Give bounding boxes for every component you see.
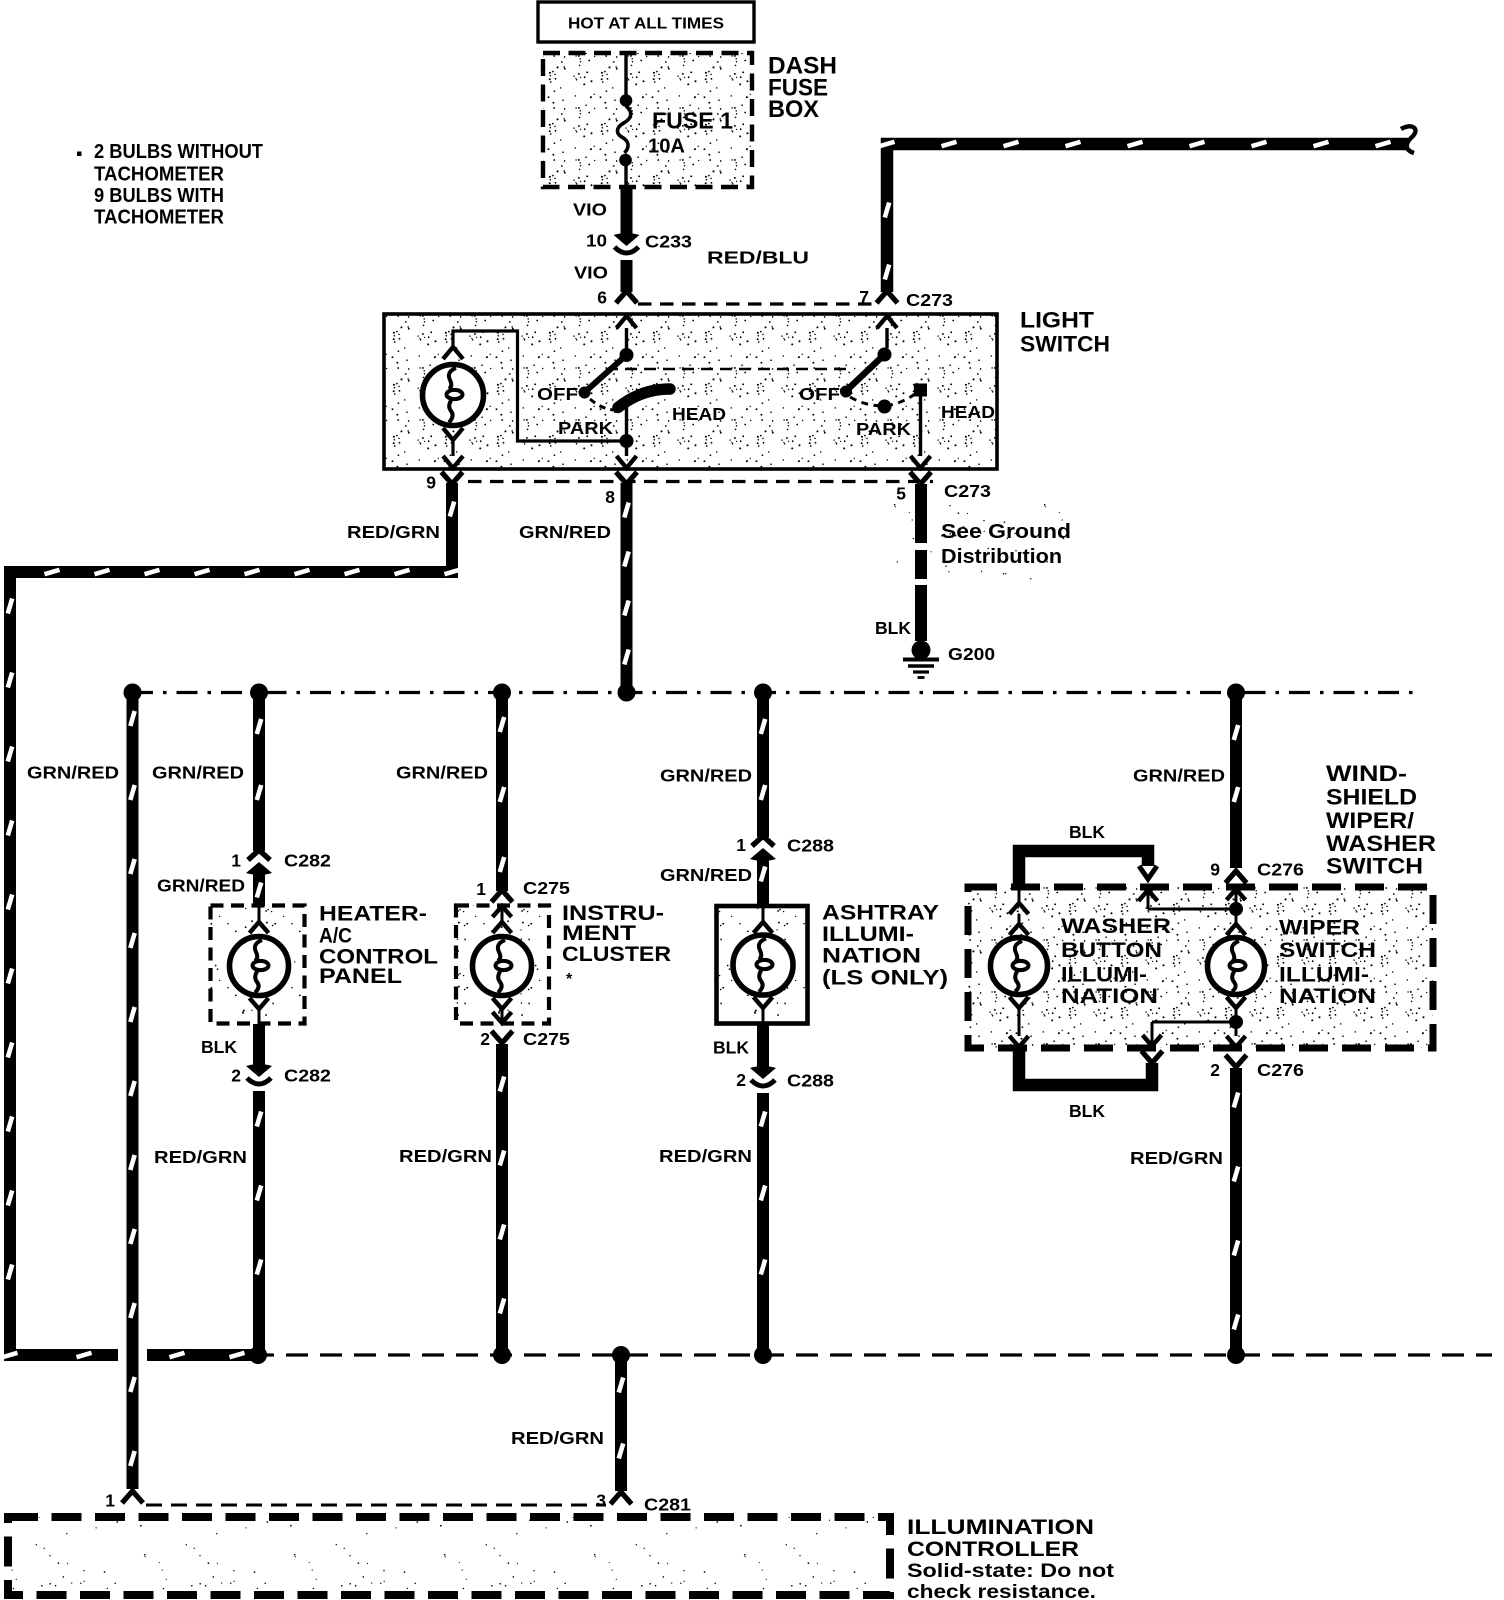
label ILLUMINATION CONTROLLER bbox=[907, 1516, 1115, 1600]
label RED/BLU bbox=[707, 248, 809, 268]
label INSTRUMENT CLUSTER bbox=[562, 902, 671, 988]
label ASHTRAY ILLUMINATION (LS ONLY) bbox=[822, 902, 948, 990]
wiper bulb exit bbox=[1227, 1022, 1246, 1047]
svg-text:C273: C273 bbox=[944, 481, 991, 501]
svg-text:G200: G200 bbox=[948, 644, 995, 664]
wire RED/BLU: pin 7 up / across to right edge bbox=[880, 142, 1409, 292]
label LIGHT SWITCH bbox=[1020, 308, 1110, 357]
wire GRN/RED: bus to C276 pin 9 bbox=[1234, 693, 1238, 869]
pin 8 flare bbox=[616, 472, 637, 484]
svg-text:SWITCH: SWITCH bbox=[1020, 332, 1110, 357]
connector C288 pin 2 (arrow/socket) bbox=[750, 1066, 776, 1086]
svg-text:C273: C273 bbox=[906, 290, 953, 310]
C275 pin 2 flare bbox=[492, 1031, 513, 1043]
connector C233 (male arrow / female socket) bbox=[614, 233, 640, 253]
label DASH FUSE BOX bbox=[768, 53, 837, 124]
label C273 (bottom) bbox=[944, 481, 991, 501]
svg-text:5: 5 bbox=[896, 484, 906, 504]
label GRN/RED (pin 8) bbox=[519, 522, 611, 542]
wire VIO: C233 to light switch pin 6 bbox=[621, 260, 633, 292]
lower bus junction dot J bbox=[754, 1346, 772, 1364]
svg-text:BLK: BLK bbox=[1069, 1101, 1105, 1121]
svg-text:9: 9 bbox=[426, 473, 436, 493]
svg-text:GRN/RED: GRN/RED bbox=[660, 865, 752, 885]
svg-text:PARK: PARK bbox=[558, 418, 613, 438]
right switch: feed line from pin 7 bbox=[877, 316, 897, 348]
label pin 8 bbox=[605, 487, 615, 507]
svg-text:2: 2 bbox=[1210, 1060, 1220, 1080]
upper bus junction dot D bbox=[618, 684, 636, 702]
stipple around See Ground bbox=[885, 502, 1070, 582]
svg-text:C233: C233 bbox=[645, 232, 692, 252]
label pin 5 bbox=[896, 484, 906, 504]
label GRN/RED (left edge wire) bbox=[27, 763, 119, 783]
svg-text:C281: C281 bbox=[644, 1495, 691, 1515]
svg-text:NATION: NATION bbox=[1279, 985, 1376, 1008]
label HEATER-A/C CONTROL PANEL bbox=[319, 903, 438, 989]
svg-text:BLK: BLK bbox=[201, 1037, 237, 1057]
label pin 2 C275 bbox=[480, 1029, 490, 1049]
svg-text:1: 1 bbox=[231, 851, 241, 871]
fuse F1 terminal dot top bbox=[620, 94, 633, 107]
svg-text:A/C: A/C bbox=[319, 925, 352, 948]
left switch blade to OFF bbox=[586, 355, 627, 391]
svg-text:1: 1 bbox=[736, 835, 746, 855]
svg-text:RED/BLU: RED/BLU bbox=[707, 248, 809, 268]
label See Ground Distribution bbox=[941, 521, 1071, 568]
svg-text:2: 2 bbox=[736, 1070, 746, 1090]
wiper switch bulb column entry bbox=[1227, 889, 1246, 909]
wire RED/GRN: C275 pin 2 to lower bus bbox=[500, 1044, 504, 1355]
lower bus dashed line bbox=[252, 1353, 1492, 1356]
label pin 9 C276 bbox=[1210, 860, 1220, 880]
washer bulb column bbox=[991, 887, 1048, 1047]
right switch pivot dot bbox=[878, 348, 892, 362]
lower bus junction dot K bbox=[1227, 1346, 1245, 1364]
svg-text:HEATER-: HEATER- bbox=[319, 903, 427, 926]
label BLK (heater) bbox=[201, 1037, 237, 1057]
wire GRN/RED: C282 to heater box bbox=[257, 872, 261, 906]
svg-text:SWITCH: SWITCH bbox=[1279, 939, 1376, 962]
left switch OFF contact dot bbox=[579, 387, 591, 399]
wire: fuse feed (inside fuse box) bbox=[624, 55, 627, 96]
C276 pin 2 flare bbox=[1226, 1055, 1247, 1067]
left switch lever (thick swoosh to HEAD) bbox=[618, 389, 670, 408]
BLK top jumper arrow into box bbox=[1139, 866, 1157, 879]
svg-text:GRN/RED: GRN/RED bbox=[519, 522, 611, 542]
wire GRN/RED: bus to illumination controller pin 1 bbox=[130, 693, 134, 1490]
svg-text:2 BULBS WITHOUT: 2 BULBS WITHOUT bbox=[94, 141, 263, 163]
svg-text:WIPER: WIPER bbox=[1279, 917, 1360, 940]
light switch box (stippled) bbox=[384, 314, 997, 469]
label VIO (lower) bbox=[574, 263, 608, 283]
svg-text:VIO: VIO bbox=[573, 200, 607, 220]
label RED/GRN (instrument) bbox=[399, 1146, 492, 1166]
wire BLK: bottom jumper wiper-washer bbox=[1019, 1048, 1152, 1085]
wire GRN/RED: pin 8 to upper bus bbox=[624, 483, 628, 693]
svg-text:GRN/RED: GRN/RED bbox=[152, 763, 244, 783]
svg-text:BOX: BOX bbox=[768, 96, 819, 123]
lower bus junction dot H bbox=[493, 1346, 511, 1364]
right switch OFF contact dot bbox=[840, 386, 852, 398]
svg-text:WASHER: WASHER bbox=[1326, 831, 1436, 856]
illumination controller pin 1 flare bbox=[122, 1491, 143, 1503]
left switch exit chevron bbox=[617, 441, 637, 468]
wire RED/GRN: lower bus to C281 pin 3 bbox=[619, 1355, 623, 1491]
dash fuse box (dashed, stippled) bbox=[543, 53, 752, 187]
svg-text:GRN/RED: GRN/RED bbox=[27, 763, 119, 783]
svg-text:C275: C275 bbox=[523, 878, 570, 898]
wire BLK: top jumper washer-wiper bbox=[1019, 851, 1148, 887]
fuse F1 terminal dot bottom bbox=[619, 154, 632, 167]
label pin 6 bbox=[597, 288, 607, 308]
label pin 1 C288 bbox=[736, 835, 746, 855]
svg-text:PANEL: PANEL bbox=[319, 965, 402, 988]
light switch internal wire: bulb to park tap bbox=[453, 331, 620, 441]
svg-text:CONTROLLER: CONTROLLER bbox=[907, 1538, 1079, 1561]
svg-text:C275: C275 bbox=[523, 1029, 570, 1049]
windshield wiper/washer switch box (dashed, stippled) bbox=[968, 887, 1433, 1048]
label WASHER BUTTON ILLUMI- NATION bbox=[1061, 915, 1171, 1008]
instrument bulb bbox=[473, 906, 532, 1023]
label VIO (upper) bbox=[573, 200, 607, 220]
svg-text:2: 2 bbox=[480, 1029, 490, 1049]
wire GRN/RED: left edge down to lower bus bbox=[3, 566, 253, 1357]
svg-text:GRN/RED: GRN/RED bbox=[660, 766, 752, 786]
svg-text:WIPER/: WIPER/ bbox=[1326, 808, 1414, 833]
label BLK (bottom) bbox=[1069, 1101, 1105, 1121]
wire GRN/RED: bus to C275 pin 1 bbox=[500, 693, 504, 892]
wiper junction dot (top) bbox=[1229, 902, 1243, 916]
svg-text:GRN/RED: GRN/RED bbox=[396, 763, 488, 783]
C276 pin 9 flare bbox=[1226, 871, 1247, 883]
label HEAD (right) bbox=[941, 402, 995, 422]
wire GRN/RED: bus to C288 pin 1 bbox=[761, 693, 765, 838]
svg-text:10A: 10A bbox=[648, 136, 685, 158]
internal link top bbox=[1139, 890, 1230, 909]
svg-text:ASHTRAY: ASHTRAY bbox=[822, 902, 939, 925]
svg-text:*: * bbox=[566, 971, 573, 988]
svg-text:GRN/RED: GRN/RED bbox=[157, 876, 245, 896]
svg-text:FUSE 1: FUSE 1 bbox=[652, 108, 733, 134]
note: bulb count legend bbox=[77, 141, 263, 229]
C275 pin 1 flare bbox=[492, 890, 513, 902]
svg-text:PARK: PARK bbox=[856, 419, 911, 439]
mechanical link dashed line bbox=[606, 368, 852, 371]
svg-text:MENT: MENT bbox=[562, 922, 636, 945]
left switch line to pin 8 bbox=[625, 407, 628, 441]
label 10 bbox=[586, 231, 607, 251]
label C281 bbox=[644, 1495, 691, 1515]
svg-text:HEAD: HEAD bbox=[672, 404, 726, 424]
svg-text:OFF: OFF bbox=[537, 384, 578, 404]
heater A/C control panel box (dashed) bbox=[211, 906, 305, 1024]
upper bus junction dot C bbox=[493, 684, 511, 702]
svg-text:C282: C282 bbox=[284, 1066, 331, 1086]
svg-text:C276: C276 bbox=[1257, 860, 1304, 880]
label BLK (ground) bbox=[875, 618, 911, 638]
lower bus junction dot I bbox=[612, 1346, 630, 1364]
label BLK (ashtray) bbox=[713, 1038, 749, 1058]
svg-text:LIGHT: LIGHT bbox=[1020, 308, 1095, 333]
label C276 (pin 2) bbox=[1257, 1060, 1304, 1080]
wire BLK: ashtray box to C288 pin 2 bbox=[757, 1023, 769, 1068]
C281 pin 3 flare bbox=[611, 1492, 632, 1504]
svg-text:check resistance.: check resistance. bbox=[907, 1582, 1096, 1600]
wire RED/GRN: pin 9 to left edge run bbox=[10, 483, 460, 574]
connector C282 pin 1 (socket/arrow) bbox=[246, 850, 272, 875]
svg-text:SHIELD: SHIELD bbox=[1326, 785, 1417, 810]
fuse 1 element (squiggle) bbox=[617, 106, 630, 153]
svg-text:BLK: BLK bbox=[875, 618, 911, 638]
right switch HEAD terminal (square) bbox=[914, 384, 927, 397]
wire GRN/RED: bus to C282 pin 1 bbox=[257, 693, 261, 852]
svg-text:RED/GRN: RED/GRN bbox=[154, 1147, 247, 1167]
svg-text:OFF: OFF bbox=[799, 384, 840, 404]
connector C288 pin 1 (socket/arrow) bbox=[750, 836, 776, 861]
wire BLK gap segment 2 bbox=[915, 550, 927, 579]
label GRN/RED (below C288) bbox=[660, 865, 752, 885]
left switch park tap dot bbox=[620, 434, 634, 448]
illumination controller box (dashed) bbox=[8, 1517, 890, 1595]
wire RED/GRN: C288 pin 2 to lower bus bbox=[761, 1093, 765, 1355]
label RED/GRN (controller) bbox=[511, 1428, 604, 1448]
svg-text:RED/GRN: RED/GRN bbox=[347, 522, 440, 542]
wire BLK gap segment 3 bbox=[915, 585, 927, 641]
label pin 2 C288 bbox=[736, 1070, 746, 1090]
pin 9 flare bbox=[442, 472, 463, 484]
svg-text:C288: C288 bbox=[787, 836, 834, 856]
label GRN/RED (wiper) bbox=[1133, 766, 1225, 786]
label FUSE 1 bbox=[652, 108, 733, 134]
ashtray illumination box (solid) bbox=[717, 906, 808, 1024]
label C273 (top) bbox=[906, 290, 953, 310]
svg-text:ILLUMI-: ILLUMI- bbox=[1061, 964, 1147, 987]
ground G200 symbol bbox=[903, 641, 939, 678]
lower bus junction dot G bbox=[249, 1346, 267, 1364]
svg-text:RED/GRN: RED/GRN bbox=[511, 1428, 604, 1448]
pin 7 flare bbox=[877, 291, 898, 303]
svg-text:RED/GRN: RED/GRN bbox=[1130, 1148, 1223, 1168]
left switch: feed line from pin 6 bbox=[617, 316, 637, 349]
wiper junction dot (bottom) bbox=[1229, 1015, 1243, 1029]
svg-text:1: 1 bbox=[105, 1491, 115, 1511]
label pin 1 (illumination controller) bbox=[105, 1491, 115, 1511]
label WIPER SWITCH ILLUMI- NATION bbox=[1279, 917, 1376, 1009]
label pin 9 bbox=[426, 473, 436, 493]
upper bus dash-dot line bbox=[132, 691, 1420, 694]
connector C282 pin 2 (arrow/socket) bbox=[246, 1064, 272, 1084]
svg-text:RED/GRN: RED/GRN bbox=[659, 1146, 752, 1166]
svg-text:TACHOMETER: TACHOMETER bbox=[94, 164, 225, 186]
continuation squiggle at right edge bbox=[1401, 126, 1415, 153]
label GRN/RED (column 2) bbox=[152, 763, 244, 783]
label pin 1 C275 bbox=[476, 879, 486, 899]
label C276 (pin 9) bbox=[1257, 860, 1304, 880]
label C288 (pin 1) bbox=[787, 836, 834, 856]
svg-text:BLK: BLK bbox=[1069, 822, 1105, 842]
illumination controller interface dash line bbox=[146, 1504, 606, 1507]
wire BLK: pin 5 toward ground (interrupted) bbox=[915, 484, 927, 543]
svg-text:BLK: BLK bbox=[713, 1038, 749, 1058]
wire RED/GRN: C276 pin 2 to lower bus bbox=[1234, 1068, 1238, 1355]
upper bus junction dot B bbox=[250, 684, 268, 702]
svg-text:CLUSTER: CLUSTER bbox=[562, 943, 671, 966]
label pin 7 bbox=[859, 287, 869, 307]
ashtray bulb bbox=[733, 906, 793, 1023]
svg-text:GRN/RED: GRN/RED bbox=[1133, 766, 1225, 786]
label RED/GRN (pin 9) bbox=[347, 522, 440, 542]
right switch PARK contact dot bbox=[878, 400, 892, 414]
left switch pivot dot bbox=[620, 348, 634, 362]
svg-text:1: 1 bbox=[476, 879, 486, 899]
upper bus junction dot F bbox=[1227, 684, 1245, 702]
svg-text:ILLUMI-: ILLUMI- bbox=[1279, 964, 1369, 987]
heater bulb bbox=[230, 906, 289, 1024]
pin 6 flare bbox=[616, 291, 637, 303]
power tag: HOT AT ALL TIMES box bbox=[538, 2, 754, 42]
label C288 (pin 2) bbox=[787, 1071, 834, 1091]
svg-text:8: 8 bbox=[605, 487, 615, 507]
svg-text:C276: C276 bbox=[1257, 1060, 1304, 1080]
svg-text:VIO: VIO bbox=[574, 263, 608, 283]
label RED/GRN (ashtray) bbox=[659, 1146, 752, 1166]
label pin 2 C282 bbox=[231, 1066, 241, 1086]
right switch dashed throw arc bbox=[850, 394, 915, 406]
right switch blade to OFF bbox=[847, 355, 885, 391]
wiper bulb bbox=[1208, 909, 1265, 1022]
svg-text:2: 2 bbox=[231, 1066, 241, 1086]
svg-text:9: 9 bbox=[1210, 860, 1220, 880]
svg-text:NATION: NATION bbox=[1061, 985, 1158, 1008]
upper bus junction dot E bbox=[754, 684, 772, 702]
svg-text:(LS ONLY): (LS ONLY) bbox=[822, 967, 948, 990]
svg-text:HEAD: HEAD bbox=[941, 402, 995, 422]
svg-text:RED/GRN: RED/GRN bbox=[399, 1146, 492, 1166]
BLK bottom jumper flare bbox=[1142, 1051, 1163, 1063]
label WINDSHIELD WIPER/WASHER SWITCH bbox=[1326, 761, 1436, 879]
label pin 2 C276 bbox=[1210, 1060, 1220, 1080]
svg-text:WASHER: WASHER bbox=[1061, 915, 1171, 938]
instrument cluster box (dashed) bbox=[456, 906, 549, 1024]
svg-text:3: 3 bbox=[596, 1491, 606, 1511]
right switch line to pin 5 bbox=[911, 396, 931, 468]
label pin 1 C282 bbox=[231, 851, 241, 871]
label C233 bbox=[645, 232, 692, 252]
interface dash line (pins 6-7) bbox=[638, 302, 876, 305]
illumination bulb (light switch) bbox=[423, 347, 484, 468]
svg-text:Distribution: Distribution bbox=[941, 546, 1062, 568]
wire BLK: heater box to C282 pin 2 bbox=[253, 1024, 265, 1066]
svg-text:ILLUMINATION: ILLUMINATION bbox=[907, 1516, 1094, 1539]
svg-text:Solid-state: Do not: Solid-state: Do not bbox=[907, 1561, 1115, 1582]
upper bus junction dot A bbox=[124, 684, 142, 702]
svg-text:C288: C288 bbox=[787, 1071, 834, 1091]
internal link bottom bbox=[1143, 1022, 1230, 1046]
svg-text:C282: C282 bbox=[284, 851, 331, 871]
svg-text:SWITCH: SWITCH bbox=[1326, 854, 1423, 879]
svg-text:9 BULBS WITH: 9 BULBS WITH bbox=[94, 185, 224, 207]
svg-text:See Ground: See Ground bbox=[941, 521, 1071, 543]
svg-text:6: 6 bbox=[597, 288, 607, 308]
svg-text:ILLUMI-: ILLUMI- bbox=[822, 923, 914, 946]
svg-text:10: 10 bbox=[586, 231, 607, 251]
label OFF (right) bbox=[799, 384, 840, 404]
label 10A bbox=[648, 136, 685, 158]
left switch dashed throw arc bbox=[590, 399, 615, 410]
label GRN/RED (instrument) bbox=[396, 763, 488, 783]
label C282 (pin 1) bbox=[284, 851, 331, 871]
label pin 3 bbox=[596, 1491, 606, 1511]
wire: fuse to box bottom bbox=[624, 160, 627, 187]
label OFF (left) bbox=[537, 384, 578, 404]
pin 5 flare bbox=[910, 472, 931, 484]
svg-text:HOT AT ALL TIMES: HOT AT ALL TIMES bbox=[568, 16, 724, 33]
wire RED/GRN: C282 pin 2 to lower bus bbox=[257, 1091, 261, 1355]
wire GRN/RED: C288 to ashtray box bbox=[761, 858, 765, 906]
label RED/GRN (heater) bbox=[154, 1147, 247, 1167]
label GRN/RED (below C282) bbox=[157, 876, 245, 896]
svg-text:TACHOMETER: TACHOMETER bbox=[94, 207, 225, 229]
label C282 (pin 2) bbox=[284, 1066, 331, 1086]
label G200 bbox=[948, 644, 995, 664]
svg-text:BUTTON: BUTTON bbox=[1061, 939, 1162, 962]
label PARK (right) bbox=[856, 419, 911, 439]
interface dash line (pins 9-8-5) bbox=[468, 480, 933, 483]
label HEAD (left) bbox=[672, 404, 726, 424]
svg-text:WIND-: WIND- bbox=[1326, 761, 1407, 786]
label RED/GRN (wiper) bbox=[1130, 1148, 1223, 1168]
label C275 (pin 1) bbox=[523, 878, 570, 898]
label GRN/RED (ashtray upper) bbox=[660, 766, 752, 786]
label BLK (top) bbox=[1069, 822, 1105, 842]
label PARK (left) bbox=[558, 418, 613, 438]
wire VIO: fuse box to connector C233 bbox=[621, 187, 633, 235]
svg-text:NATION: NATION bbox=[822, 945, 921, 968]
label C275 (pin 2) bbox=[523, 1029, 570, 1049]
